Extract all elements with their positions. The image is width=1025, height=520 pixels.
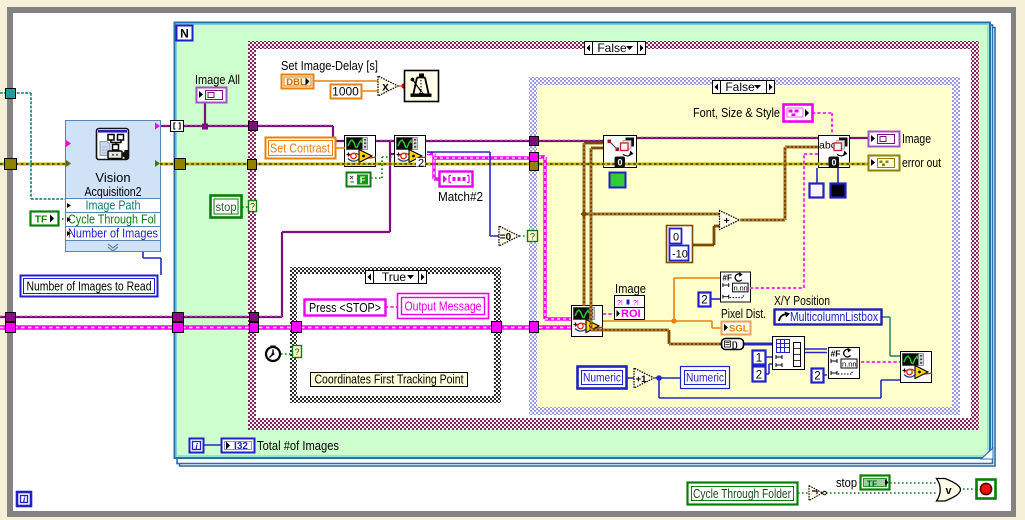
svg-text:F: F — [360, 175, 366, 185]
wire image: Vision Acq output to big case — [160, 126, 345, 141]
for loop N frames (stacked shadow) — [175, 23, 996, 467]
index array small node — [722, 339, 744, 350]
Coordinates First Tracking Point — [311, 373, 468, 387]
error wire (olive, over icons) — [0, 163, 868, 166]
stop control (for loop) — [211, 196, 242, 218]
svg-text:2: 2 — [814, 371, 820, 383]
wire fmt1 to abc position — [750, 154, 818, 288]
green color box constant — [610, 173, 626, 188]
wire image: inner tunnel to line node — [538, 140, 603, 142]
while loop stop terminal — [977, 480, 996, 499]
svg-text:Numeric: Numeric — [686, 371, 724, 385]
brown cluster wires — [584, 143, 818, 344]
teal wires — [0, 93, 66, 199]
Press STOP / Output Message — [305, 300, 386, 316]
svg-text:Image All: Image All — [195, 72, 240, 87]
svg-text:Vision: Vision — [95, 170, 130, 185]
inner False case structure — [529, 77, 960, 415]
Number of Images to Read label — [21, 276, 158, 297]
svg-text:Number of Images to Read: Number of Images to Read — [27, 280, 152, 294]
color box constants — [810, 184, 824, 198]
Vision Acquisition2 express VI — [66, 121, 161, 252]
+1 node — [634, 368, 654, 388]
Numeric control — [578, 367, 627, 389]
wire ROI — [603, 313, 614, 315]
wire image: icon1 to inner case tunnel (behind icon2) — [375, 140, 530, 142]
svg-text:?: ? — [294, 347, 299, 357]
svg-text:I32: I32 — [234, 441, 248, 452]
svg-text:Cycle Through Folder: Cycle Through Folder — [693, 487, 791, 501]
svg-text:stop: stop — [836, 475, 857, 490]
svg-text:stop: stop — [216, 200, 237, 214]
svg-text:SGL: SGL — [729, 324, 749, 335]
Numeric indicator — [681, 367, 730, 389]
vision tracking icon (IMAQ) — [572, 306, 604, 337]
i iteration terminal (for loop) — [190, 439, 204, 453]
svg-text:Total #of Images: Total #of Images — [257, 438, 339, 453]
svg-text:Image Path: Image Path — [86, 198, 141, 213]
abc overlay text node — [819, 136, 850, 168]
svg-text:=0: =0 — [500, 232, 512, 243]
0 badge line node — [615, 157, 626, 168]
svg-text:False: False — [597, 41, 627, 55]
vision icon2 (IMAQ) with label 2 — [395, 136, 427, 167]
svg-text:Image: Image — [615, 281, 646, 296]
magenta match wire — [427, 154, 571, 320]
svg-text:True: True — [382, 270, 407, 284]
svg-text:Numeric: Numeric — [583, 371, 621, 385]
svg-text:[): [) — [732, 340, 738, 350]
svg-text:0: 0 — [673, 232, 679, 244]
Image indicator — [869, 132, 900, 147]
format node 1 — [720, 272, 750, 302]
tunnels on True case border — [292, 322, 302, 333]
svg-text:+1: +1 — [636, 374, 648, 385]
svg-text:Press <STOP>: Press <STOP> — [309, 301, 381, 315]
svg-text:0: 0 — [831, 158, 836, 168]
line overlay node — [604, 136, 637, 168]
svg-text:TF: TF — [35, 215, 47, 226]
Cycle Through Folder label — [688, 483, 798, 505]
i iteration terminal (while loop) — [17, 492, 31, 506]
svg-text:2: 2 — [418, 158, 424, 170]
Total #of Images — [222, 439, 255, 453]
loop corner fold — [981, 448, 993, 459]
node junction dot image wire — [202, 124, 208, 130]
wire font to abc — [812, 113, 832, 135]
purple image wires (drawn under nodes) — [0, 103, 868, 317]
svg-text:?: ? — [530, 232, 535, 242]
svg-text:error out: error out — [902, 155, 941, 170]
TF constant left — [31, 212, 59, 226]
svg-text:x: x — [382, 80, 389, 94]
svg-text:Coordinates First Tracking Poi: Coordinates First Tracking Point — [315, 373, 464, 387]
green dotted boolean wires — [58, 157, 976, 493]
tunnels on big case border — [249, 122, 258, 131]
svg-text:2: 2 — [701, 295, 707, 307]
svg-text:v: v — [945, 485, 952, 497]
svg-text:Set Image-Delay [s]: Set Image-Delay [s] — [281, 58, 378, 73]
N count terminal — [177, 26, 193, 41]
svg-text:+: + — [724, 216, 730, 227]
svg-text:Output Message: Output Message — [405, 300, 482, 314]
svg-text:Match#2: Match#2 — [438, 189, 483, 204]
Match#2 control — [440, 172, 473, 187]
case selector labels — [585, 41, 646, 55]
svg-text:-10: -10 — [672, 249, 688, 261]
svg-text:?!: ?! — [617, 300, 623, 307]
error out indicator — [869, 156, 900, 171]
svg-text:Image: Image — [902, 131, 931, 146]
svg-text:?: ? — [250, 202, 255, 212]
True case structure — [290, 267, 501, 403]
tunnels on while loop border — [6, 89, 16, 99]
svg-text:Font, Size & Style: Font, Size & Style — [693, 105, 780, 120]
vision icon1 (IMAQ) — [345, 136, 377, 167]
1 and 2 constants — [753, 351, 766, 365]
magenta thick wire y=327 — [0, 325, 571, 330]
blue int wires — [143, 152, 900, 445]
svg-text:0: 0 — [617, 158, 622, 168]
wire image: Image All branch — [204, 103, 206, 126]
svg-text:X/Y Position: X/Y Position — [774, 293, 830, 308]
NOT gate — [809, 486, 826, 501]
final display icon (IMAQ) — [901, 352, 933, 383]
Set Contrast — [266, 138, 336, 159]
2 constant (fmt1) — [699, 293, 711, 307]
tunnels on for loop border — [171, 121, 184, 132]
wire press stop squiggle — [385, 306, 397, 308]
svg-text:2: 2 — [756, 370, 762, 382]
orange float wires — [314, 81, 721, 328]
0 / -10 cluster constant — [667, 226, 693, 263]
svg-text:MulticolumnListbox: MulticolumnListbox — [790, 310, 879, 324]
wire image: abc node to Image indicator — [850, 137, 868, 139]
svg-text:Number of Images: Number of Images — [68, 226, 158, 241]
2 constant (fmt2) — [812, 369, 824, 383]
svg-text:N: N — [180, 27, 189, 41]
svg-text:Cycle Through Fol: Cycle Through Fol — [68, 212, 156, 227]
pink dashed string/cluster wires — [385, 113, 900, 362]
tunnels on inner case border — [530, 137, 539, 146]
svg-text:DBL: DBL — [286, 77, 306, 88]
svg-text:TF: TF — [867, 479, 877, 489]
index array big node — [773, 337, 805, 370]
=0 comparison — [499, 226, 519, 246]
format node 2 — [829, 348, 860, 379]
svg-text:Set Contrast: Set Contrast — [270, 142, 330, 156]
OR gate — [937, 479, 961, 502]
F boolean constant — [347, 173, 371, 187]
+ add node — [720, 211, 740, 230]
svg-text:?!: ?! — [633, 300, 639, 307]
big False case structure — [248, 41, 979, 430]
svg-text:1: 1 — [756, 353, 762, 365]
wire image: branch down to left tunnels — [0, 140, 395, 317]
svg-text:1000: 1000 — [332, 85, 359, 99]
label 2 for icon2 — [416, 158, 425, 167]
clock icon — [266, 346, 280, 362]
wire fmt2 to display icon — [861, 361, 900, 363]
svg-text:False: False — [725, 80, 755, 94]
svg-text:Pixel Dist.: Pixel Dist. — [721, 306, 766, 321]
0 badge abc node — [829, 157, 840, 168]
svg-text:ROI: ROI — [621, 308, 641, 320]
wire image: line node to abc node — [636, 137, 818, 139]
